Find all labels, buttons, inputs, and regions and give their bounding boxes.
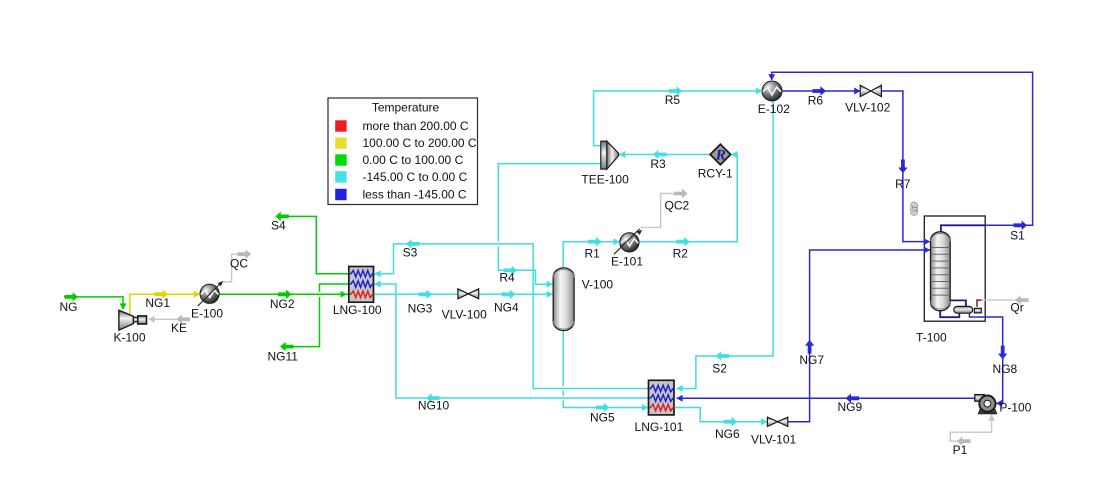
svg-text:LNG-100: LNG-100 (333, 303, 382, 317)
wire NG9 (677, 397, 975, 399)
legend swatch green (335, 154, 346, 165)
arrow S1 (1014, 221, 1028, 230)
wire R1 (563, 242, 619, 269)
svg-text:R4: R4 (499, 270, 515, 284)
svg-text:S4: S4 (271, 218, 286, 232)
valve VLV-100 (458, 289, 479, 299)
wire T-100 bottoms to reboiler (940, 310, 959, 317)
svg-text:KE: KE (171, 321, 187, 335)
LNG exchanger LNG-100 (349, 267, 374, 303)
svg-text:R6: R6 (808, 94, 824, 108)
tee TEE-100 (601, 141, 619, 169)
svg-text:S3: S3 (403, 245, 418, 259)
svg-text:VLV-102: VLV-102 (845, 101, 890, 115)
wire QC energy (222, 254, 239, 282)
arrow QC (238, 250, 252, 259)
heat exchanger E-102 (762, 81, 782, 101)
svg-text:S1: S1 (1010, 228, 1025, 242)
svg-text:TEE-100: TEE-100 (581, 173, 629, 187)
wire S4 (276, 216, 349, 273)
svg-text:R5: R5 (665, 93, 681, 107)
wire R5 (594, 91, 757, 146)
svg-text:NG4: NG4 (494, 301, 519, 315)
column tower T-100 (931, 232, 951, 311)
arrow NG3 (419, 290, 433, 299)
svg-text:NG7: NG7 (799, 353, 824, 367)
svg-text:R: R (715, 148, 726, 164)
arrow S4 (275, 212, 289, 221)
arrow S3 (406, 239, 420, 248)
svg-text:NG6: NG6 (715, 427, 740, 441)
wire NG8 (969, 313, 1002, 403)
arrow NG5 (596, 403, 610, 412)
arrow NG (65, 292, 79, 301)
svg-text:R3: R3 (650, 157, 666, 171)
wire NG1 (130, 294, 200, 314)
tray-section marker 1T (911, 202, 919, 215)
svg-text:-145.00 C to 0.00 C: -145.00 C to 0.00 C (363, 170, 468, 184)
arrow R3 (653, 150, 667, 159)
wire P1 energy (950, 415, 991, 442)
reboiler of T-100 (954, 306, 982, 313)
svg-text:NG1: NG1 (145, 296, 170, 310)
arrow NG7 (805, 340, 814, 354)
arrow NG11 (280, 342, 294, 351)
svg-text:NG11: NG11 (267, 349, 298, 363)
wire R7 (881, 91, 930, 242)
legend temperature colour scale (328, 98, 478, 205)
wire NG4 (479, 293, 553, 295)
wire NG7 (788, 250, 930, 422)
svg-text:R7: R7 (895, 177, 911, 191)
svg-text:E-101: E-101 (611, 255, 643, 269)
wire R2 (639, 155, 737, 242)
valve VLV-102 (860, 85, 881, 96)
svg-text:S2: S2 (712, 361, 727, 375)
svg-text:1T: 1T (913, 205, 919, 212)
wire NG6 (674, 408, 767, 422)
svg-text:NG: NG (60, 300, 78, 314)
wire NG11 (320, 284, 349, 292)
wire QC2 energy (641, 194, 675, 228)
recycle RCY-1 (710, 144, 730, 164)
svg-text:Qr: Qr (1010, 301, 1023, 315)
wire R4 (498, 164, 601, 242)
svg-text:VLV-100: VLV-100 (442, 308, 487, 322)
arrow R2 (676, 237, 690, 246)
svg-text:NG5: NG5 (590, 410, 615, 424)
legend swatch blue (335, 189, 346, 200)
arrow NG9 (845, 394, 859, 403)
heat exchanger E-101 (614, 229, 642, 254)
arrow NG10 (426, 393, 440, 402)
arrow NG4 (502, 290, 516, 299)
wire NG3 (374, 293, 459, 295)
svg-text:T-100: T-100 (916, 330, 947, 344)
wire R3 (619, 154, 710, 156)
wire NG10 (374, 284, 648, 398)
wire S3 (374, 244, 648, 389)
arrow NG1 (155, 290, 169, 299)
arrow P1 (957, 437, 971, 446)
wire S2 (677, 101, 774, 389)
wire NG2 (219, 293, 349, 295)
svg-text:LNG-101: LNG-101 (635, 420, 684, 434)
arrow NG8 (998, 346, 1007, 360)
svg-text:NG8: NG8 (993, 362, 1018, 376)
wire S1 overhead inside T-100 (941, 225, 985, 232)
arrow R6 (812, 86, 826, 95)
svg-text:VLV-101: VLV-101 (751, 432, 796, 446)
svg-text:P1: P1 (953, 443, 968, 457)
arrow R7 (898, 160, 907, 174)
arrow QC2 (674, 189, 688, 198)
wire NG (64, 297, 123, 310)
arrow KE (176, 315, 190, 324)
svg-text:QC2: QC2 (665, 198, 690, 212)
svg-text:R2: R2 (673, 246, 689, 260)
wire Qr energy (977, 300, 982, 307)
svg-text:NG10: NG10 (418, 399, 450, 413)
svg-text:R1: R1 (585, 246, 601, 260)
separator V-100 (553, 268, 574, 331)
svg-text:V-100: V-100 (582, 277, 614, 291)
svg-text:0.00 C to 100.00 C: 0.00 C to 100.00 C (363, 153, 464, 167)
arrow R1 (588, 237, 602, 246)
svg-text:RCY-1: RCY-1 (698, 167, 733, 181)
svg-text:less than -145.00 C: less than -145.00 C (363, 188, 467, 202)
legend swatch yellow (335, 137, 346, 148)
svg-text:E-102: E-102 (758, 102, 790, 116)
legend swatch red (335, 120, 346, 131)
svg-text:P-100: P-100 (999, 400, 1031, 414)
arrow R5 (669, 86, 683, 95)
svg-text:100.00 C to 200.00 C: 100.00 C to 200.00 C (363, 136, 477, 150)
pump P-100 (975, 395, 997, 414)
arrow S2 (716, 351, 730, 360)
heat exchanger E-100 (198, 281, 223, 306)
wire T-100 reboiler feed (949, 300, 966, 306)
svg-text:NG3: NG3 (408, 302, 433, 316)
svg-text:K-100: K-100 (113, 330, 145, 344)
valve VLV-101 (767, 417, 787, 426)
legend swatch cyan (335, 171, 346, 182)
svg-text:more than 200.00 C: more than 200.00 C (363, 119, 469, 133)
svg-text:E-100: E-100 (191, 306, 223, 320)
column T-100 subflowsheet box (924, 216, 985, 321)
arrow NG2 (278, 290, 292, 299)
wire NG5 (562, 330, 564, 386)
svg-text:QC: QC (230, 257, 248, 271)
svg-text:NG9: NG9 (837, 400, 862, 414)
compressor K-100 (119, 310, 147, 330)
svg-text:NG2: NG2 (270, 297, 295, 311)
arrow R4 (504, 266, 518, 275)
wire S1 (772, 72, 1033, 225)
arrow NG6 (724, 417, 738, 426)
svg-text:Temperature: Temperature (372, 101, 440, 115)
wire R6 (782, 90, 860, 92)
LNG exchanger LNG-101 (649, 380, 675, 415)
wire KE energy (149, 318, 190, 320)
arrow Qr (1015, 295, 1029, 304)
